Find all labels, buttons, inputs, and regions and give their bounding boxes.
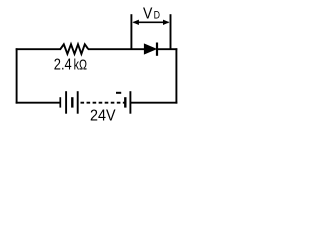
svg-text:2.4: 2.4 (54, 57, 72, 74)
wire bottom-left segment (16, 102, 61, 104)
VD measurement left tick (130, 14, 132, 49)
svg-text:V: V (143, 6, 153, 23)
diode D anode triangle (144, 43, 157, 54)
wire top-left segment (16, 48, 61, 50)
VD measurement right tick (170, 14, 172, 49)
wire top-right segment (157, 48, 177, 50)
wire bottom-right segment (130, 102, 177, 104)
wire battery dashed middle (81, 102, 125, 104)
resistor R (60, 44, 88, 54)
VD measurement arrow line (134, 21, 169, 23)
battery cell2 short plate (71, 97, 73, 107)
VD measurement right arrowhead (163, 20, 170, 25)
svg-text:D: D (154, 10, 161, 22)
battery cell3 long plate (129, 91, 131, 114)
battery cell1 long plate (65, 91, 67, 114)
wire top-middle segment (88, 48, 144, 50)
wire left side (16, 48, 18, 103)
battery minus sign (116, 92, 121, 94)
svg-text:24V: 24V (90, 108, 116, 125)
battery cell1 short plate (59, 97, 61, 107)
VD measurement left arrowhead (132, 20, 139, 25)
battery cell3 short plate (124, 97, 126, 107)
wire right side (175, 48, 177, 103)
svg-text:kΩ: kΩ (74, 58, 87, 74)
diode D cathode bar (156, 43, 158, 56)
battery cell2 long plate (77, 91, 79, 114)
